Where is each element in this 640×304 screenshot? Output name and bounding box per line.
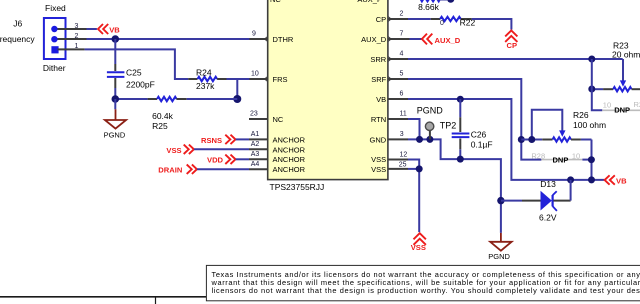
pin number 9 (252, 31, 256, 38)
svg-text:0.1µF: 0.1µF (471, 140, 493, 150)
svg-text:A1: A1 (251, 131, 260, 138)
pin number 7 (400, 31, 404, 38)
svg-text:A4: A4 (251, 161, 260, 168)
pin SRR name (370, 55, 386, 64)
pin stub AUX_D 7 (388, 37, 410, 42)
connector J6 label Dither (43, 63, 66, 73)
pin FRS name (273, 75, 288, 84)
wire FRS node down to R25 (236, 78, 238, 99)
connector J6 body (44, 18, 66, 59)
svg-text:R2: R2 (634, 100, 640, 109)
ground PGND (left) (104, 109, 127, 139)
pin stub NC 23 (249, 118, 268, 120)
pin CP name (376, 15, 386, 24)
svg-text:100 ohm: 100 ohm (573, 120, 606, 130)
connector J6 pin number 2 (75, 33, 79, 40)
pin number 5 (400, 71, 404, 78)
svg-text:VSS: VSS (411, 243, 426, 252)
power port VB (right) (605, 175, 627, 185)
pin stub ANCHOR A1 (249, 138, 268, 140)
svg-text:AUX_D: AUX_D (435, 36, 461, 45)
pin stub VSS 12 (388, 159, 408, 161)
svg-text:licensors do not warrant that: licensors do not warrant that the design… (212, 286, 640, 295)
svg-text:R25: R25 (152, 121, 168, 131)
svg-text:GND: GND (370, 135, 387, 144)
junction R26 wiper tie (528, 136, 535, 143)
power port CP (505, 30, 517, 50)
capacitor C26 branch (459, 99, 461, 159)
svg-text:SRF: SRF (371, 75, 386, 84)
D13 label (540, 179, 556, 189)
junction R25 right node (233, 95, 241, 103)
svg-text:ANCHOR: ANCHOR (273, 145, 306, 154)
svg-text:R28: R28 (531, 151, 545, 160)
junction DNP R28 right (588, 156, 595, 163)
svg-text:VDD: VDD (207, 156, 224, 165)
R24 value 237k (196, 81, 215, 91)
junction GND at D13 (497, 197, 504, 204)
resistor R24 (188, 77, 226, 81)
svg-text:NC: NC (270, 0, 281, 4)
pin stub CP 2 (388, 17, 408, 22)
port RSNS (201, 135, 249, 145)
svg-text:R24: R24 (196, 67, 212, 77)
pin VSS names (371, 155, 386, 174)
resistor R23 (592, 87, 640, 91)
svg-text:VSS: VSS (371, 165, 386, 174)
R26 label (573, 110, 589, 120)
connector J6 pin number 1 (75, 43, 79, 50)
svg-text:C25: C25 (126, 67, 142, 77)
junction C25 bottom (112, 95, 120, 103)
pin number 4 (400, 51, 404, 58)
svg-text:Fixed: Fixed (45, 3, 66, 13)
connector J6 pin stub 3 (58, 28, 87, 30)
capacitor C25 (107, 72, 125, 77)
junction VB row at R26 (588, 176, 595, 183)
DNP resistor ghost (upper) (602, 100, 640, 115)
svg-text:C26: C26 (471, 130, 487, 140)
svg-text:PGND: PGND (488, 252, 510, 261)
svg-text:7: 7 (400, 31, 404, 38)
pin stub FRS 10 (249, 77, 268, 82)
C25 label (126, 67, 142, 77)
wire D13 cathode to VB row (570, 180, 572, 201)
pin stub GND 3 (388, 138, 408, 140)
pin stub SRR 4 (388, 57, 408, 62)
DNP resistor ghost R28 (lower) (531, 151, 590, 164)
pin numbers A1-A4 (251, 131, 260, 168)
svg-text:Frequency: Frequency (0, 34, 35, 44)
C25 value 2200pF (126, 79, 155, 89)
TP2 label (440, 121, 457, 131)
svg-text:DNP: DNP (553, 155, 569, 164)
potentiometer R23 wiper arm (620, 59, 626, 87)
wire net SRR (408, 58, 623, 60)
pin number 3 (400, 131, 404, 138)
wire net GND from pin 3 (408, 139, 501, 233)
R22 pin label 0 (440, 20, 444, 27)
connector J6 pin stub 1 (58, 48, 85, 50)
R25 label (152, 121, 168, 131)
svg-text:NC: NC (273, 115, 284, 124)
pin stub VSS 25 (388, 168, 408, 170)
svg-text:VB: VB (376, 95, 386, 104)
pin stub VB 6 (388, 98, 408, 100)
connector J6 label Fixed (45, 3, 66, 13)
resistor R25 (115, 97, 237, 101)
power port VB (left) (87, 24, 121, 34)
svg-text:DNP: DNP (614, 106, 630, 115)
R24 label (196, 67, 212, 77)
svg-text:ANCHOR: ANCHOR (273, 155, 306, 164)
sheet border line (0, 297, 640, 304)
R22 label (460, 18, 476, 28)
svg-text:PGND: PGND (417, 105, 444, 115)
junction on DTHR wire at C25 (112, 35, 120, 43)
svg-text:DTHR: DTHR (273, 35, 294, 44)
svg-text:0: 0 (440, 20, 444, 27)
svg-text:3: 3 (400, 131, 404, 138)
disclaimer text box (206, 265, 640, 300)
svg-text:SRR: SRR (370, 55, 386, 64)
pin GND name (370, 135, 387, 144)
connector J6 designator (13, 18, 22, 28)
wire SRR node down to DNP R23 row (592, 59, 603, 110)
svg-text:D13: D13 (540, 179, 556, 189)
pin number 11 (400, 111, 407, 118)
R26 value 100 ohm (573, 120, 606, 130)
wire net SRF (408, 79, 541, 160)
pin number 12 (400, 151, 408, 158)
svg-text:12: 12 (400, 151, 408, 158)
junction VB row at D13 (567, 176, 574, 183)
svg-text:237k: 237k (196, 81, 215, 91)
pin VB name (376, 95, 386, 104)
pin number 25 (399, 161, 407, 168)
connector J6 pin number 3 (75, 23, 79, 30)
8.66k value label (418, 2, 440, 12)
svg-text:Dither: Dither (43, 63, 66, 73)
wire D13 anode branch (501, 200, 522, 202)
pin stub SRF 5 (388, 77, 408, 82)
port VDD (207, 155, 249, 165)
pin DTHR name (273, 35, 294, 44)
resistor fragment 8.66k (clipped at top) (421, 0, 455, 3)
svg-text:6: 6 (400, 91, 404, 98)
pin stub RTN 11 (388, 118, 408, 120)
C26 label (471, 130, 487, 140)
junction TP2-GND (426, 136, 433, 143)
junction R23 left node (588, 86, 595, 93)
svg-text:TP2: TP2 (440, 121, 457, 131)
svg-text:10: 10 (572, 151, 580, 160)
wire net VSS from pins 12/25 (408, 160, 419, 233)
R23 value 20 ohm (612, 50, 640, 60)
port DRAIN (158, 165, 249, 175)
svg-text:FRS: FRS (273, 75, 288, 84)
svg-text:RSNS: RSNS (201, 136, 222, 145)
C26 value 0.1uF (471, 140, 493, 150)
svg-text:VSS: VSS (371, 155, 386, 164)
pin stub ANCHOR A4 (249, 168, 268, 170)
svg-text:AUX_D: AUX_D (361, 35, 387, 44)
capacitor C25 branch wire (114, 39, 116, 99)
pin stub ANCHOR A2 (249, 148, 268, 150)
wire net VB from pin 6 (408, 99, 604, 180)
D13 value 6.2V (539, 213, 557, 223)
svg-text:VB: VB (616, 176, 627, 185)
svg-text:23: 23 (250, 111, 258, 118)
port VSS (A2) (166, 145, 249, 155)
svg-text:ANCHOR: ANCHOR (273, 135, 306, 144)
svg-text:10: 10 (251, 71, 259, 78)
svg-text:ANCHOR: ANCHOR (273, 165, 306, 174)
IC U1 TPS23755RJJ body (268, 0, 388, 180)
svg-text:2200pF: 2200pF (126, 79, 155, 89)
potentiometer R26 wiper arm (532, 110, 566, 140)
pin ANCHOR names (273, 135, 306, 174)
connector J6 label Frequency (clipped) (0, 34, 35, 44)
svg-text:VB: VB (109, 25, 120, 34)
pin number 6 (400, 91, 404, 98)
wire R24 to FRS node (227, 78, 250, 80)
wire J6 pin1 to R24 (85, 49, 189, 79)
svg-text:A2: A2 (251, 141, 260, 148)
svg-text:PGND: PGND (104, 131, 126, 140)
svg-text:5: 5 (400, 71, 404, 78)
pin number 23 (250, 111, 258, 118)
ground PGND (right) (488, 233, 511, 261)
junction VSS pins (416, 165, 423, 172)
svg-text:6.2V: 6.2V (539, 213, 557, 223)
svg-text:VSS: VSS (166, 146, 181, 155)
junction RTN-GND (416, 136, 423, 143)
junction C26 bottom (457, 156, 464, 163)
svg-text:DRAIN: DRAIN (158, 166, 182, 175)
port AUX_D (410, 34, 461, 45)
svg-text:TPS23755RJJ: TPS23755RJJ (270, 182, 325, 192)
resistor R26 (521, 137, 591, 141)
wire C25 to PGND (114, 99, 116, 109)
junction SRF at R26 (518, 136, 525, 143)
wire net DTHR (J6 pin2 to IC pin9) (87, 38, 250, 40)
R25 value 60.4k (152, 111, 174, 121)
pin SRF name (371, 75, 386, 84)
power port VSS (bottom) (411, 233, 426, 252)
svg-text:CP: CP (507, 41, 518, 50)
wire R26 right down to VB row (591, 140, 593, 180)
svg-text:8.66k: 8.66k (418, 2, 440, 12)
svg-text:60.4k: 60.4k (152, 111, 174, 121)
connector J6 pin stub 2 (58, 38, 87, 40)
IC clipped top pin name fragments (270, 0, 382, 4)
pin number 10 (251, 71, 259, 78)
svg-text:RTN: RTN (371, 115, 386, 124)
IC U1 designator TPS23755RJJ (270, 182, 325, 192)
svg-text:11: 11 (400, 111, 407, 118)
pin number 2 (400, 11, 404, 18)
pin AUX_D name (361, 35, 387, 44)
wire net RTN from pin 11 (408, 119, 420, 139)
svg-text:9: 9 (252, 31, 256, 38)
pin stub DTHR 9 (249, 37, 268, 42)
svg-text:20 ohm: 20 ohm (612, 50, 640, 60)
pin NC name (273, 115, 284, 124)
svg-text:J6: J6 (13, 18, 22, 28)
zener diode D13 (522, 191, 571, 211)
junction VB at C26 (457, 96, 464, 103)
test point TP2 (425, 122, 433, 139)
svg-text:10: 10 (603, 101, 611, 110)
svg-text:25: 25 (399, 161, 407, 168)
capacitor C26 (452, 134, 470, 138)
svg-text:A3: A3 (251, 151, 260, 158)
junction SRR at R23 (588, 56, 595, 63)
resistor R22 (431, 17, 472, 21)
net label PGND (417, 105, 444, 115)
svg-text:AUX_P: AUX_P (357, 0, 382, 4)
pin stub ANCHOR A3 (249, 158, 268, 160)
svg-text:R26: R26 (573, 110, 589, 120)
pin RTN name (371, 115, 386, 124)
wire R22 to CP port (472, 19, 512, 30)
wire net CP from pin 2 (408, 18, 431, 20)
R23 label (613, 40, 629, 50)
svg-text:4: 4 (400, 51, 404, 58)
svg-text:2: 2 (400, 11, 404, 18)
svg-text:CP: CP (376, 15, 386, 24)
